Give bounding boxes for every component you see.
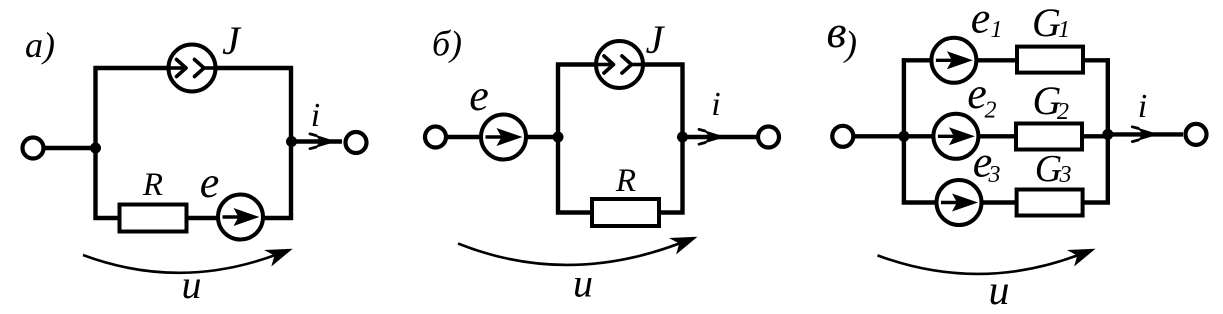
svg-text:i: i [311, 97, 320, 134]
svg-text:u: u [989, 268, 1010, 314]
svg-text:u: u [182, 262, 202, 307]
svg-text:в: в [827, 6, 847, 57]
svg-text:3: 3 [1059, 162, 1072, 188]
svg-text:): ) [843, 24, 857, 64]
svg-text:б): б) [432, 24, 462, 64]
svg-text:3: 3 [988, 162, 1001, 188]
svg-text:R: R [615, 163, 636, 199]
svg-text:2: 2 [1057, 99, 1069, 125]
svg-text:e: e [469, 71, 489, 120]
svg-text:R: R [142, 167, 163, 203]
svg-text:1: 1 [991, 17, 1003, 43]
svg-text:J: J [646, 17, 666, 62]
svg-text:а): а) [25, 25, 55, 65]
svg-text:2: 2 [985, 98, 997, 124]
svg-text:i: i [711, 86, 720, 123]
svg-text:u: u [573, 261, 593, 306]
svg-text:e: e [200, 158, 220, 207]
svg-text:G: G [1032, 0, 1061, 45]
svg-text:1: 1 [1058, 17, 1070, 43]
svg-text:G: G [1035, 148, 1062, 190]
svg-text:e: e [971, 0, 991, 43]
svg-text:J: J [222, 18, 242, 63]
svg-text:i: i [1138, 88, 1147, 125]
